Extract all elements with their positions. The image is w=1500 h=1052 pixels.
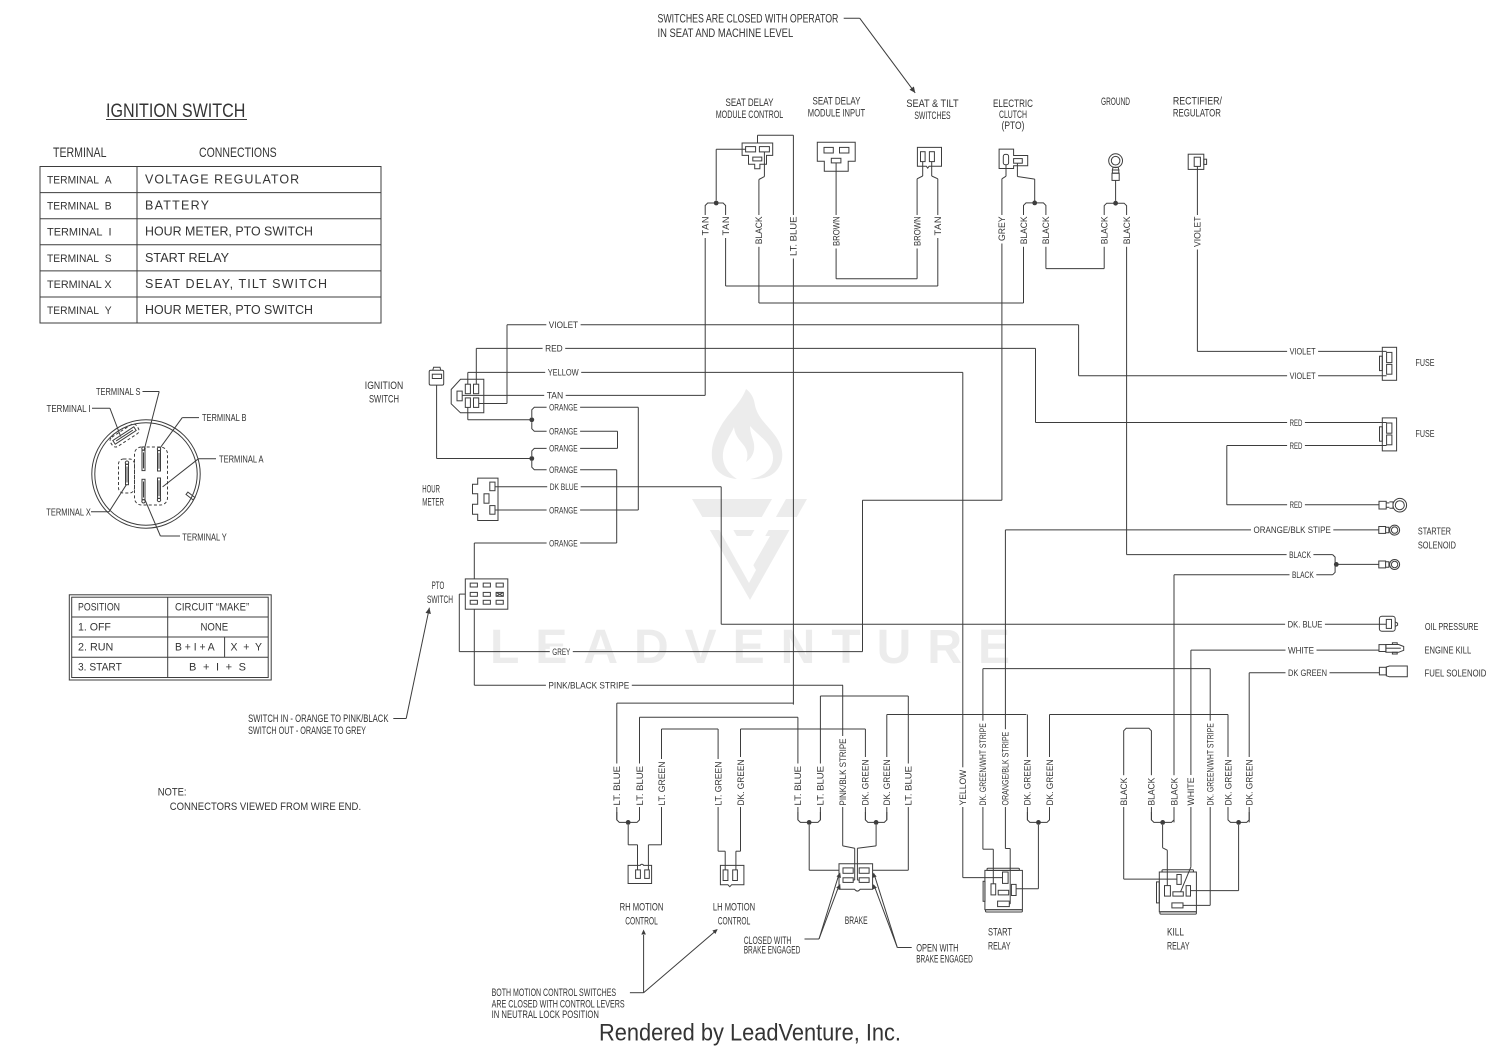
svg-text:TERMINAL S: TERMINAL S <box>96 387 141 398</box>
wire TAN seat&tilt right pin <box>931 162 933 176</box>
svg-text:LT. GREEN: LT. GREEN <box>713 762 723 806</box>
fuse 1 <box>1382 347 1396 380</box>
svg-text:WHITE: WHITE <box>1186 778 1196 806</box>
wire black junction to ring <box>1336 563 1379 565</box>
electric clutch connector <box>999 149 1028 168</box>
wire GREY pto <box>459 593 465 595</box>
svg-text:BOTH MOTION CONTROL SWITCHES: BOTH MOTION CONTROL SWITCHES <box>492 987 616 999</box>
svg-text:RELAY: RELAY <box>1167 940 1190 952</box>
wire DK.GREEN start relay b <box>1049 715 1051 820</box>
label DK. GREEN <box>1223 757 1233 807</box>
terminal pins S B X A Y <box>142 450 145 470</box>
svg-text:TERMINAL X: TERMINAL X <box>46 507 91 518</box>
label LT. BLUE <box>612 764 622 808</box>
svg-text:BLACK: BLACK <box>1100 216 1110 245</box>
svg-text:RH MOTION: RH MOTION <box>620 901 664 913</box>
label BLACK <box>1169 775 1179 807</box>
svg-text:X + Y: X + Y <box>231 642 263 654</box>
label BLACK <box>1019 215 1029 247</box>
engine kill connector <box>1379 645 1386 652</box>
wire DK.GREEN start relay a <box>1026 715 1028 820</box>
wire ground junction bracket <box>1115 180 1117 200</box>
svg-text:BLACK: BLACK <box>1289 550 1311 560</box>
key symbol <box>429 370 444 385</box>
terminal I slot <box>109 422 141 448</box>
row DK. BLUE to oil pressure <box>721 623 1386 625</box>
svg-text:CIRCUIT “MAKE”: CIRCUIT “MAKE” <box>175 602 249 614</box>
svg-text:TAN: TAN <box>547 391 564 401</box>
row LT.BLUE rh to brake <box>640 716 798 718</box>
svg-text:WHITE: WHITE <box>1288 645 1314 655</box>
svg-text:TERMINAL: TERMINAL <box>53 144 107 160</box>
row DK.GREEN lh to brake <box>741 728 866 730</box>
wire kill black junction in <box>1162 825 1164 848</box>
svg-text:IN NEUTRAL LOCK POSITION: IN NEUTRAL LOCK POSITION <box>492 1009 599 1021</box>
svg-text:LT. BLUE: LT. BLUE <box>904 766 914 806</box>
row DK.GREEN start to kill <box>1050 714 1229 716</box>
wire DK.GREEN kill a <box>1227 715 1229 820</box>
label DK. GREEN <box>882 757 892 807</box>
svg-text:MODULE CONTROL: MODULE CONTROL <box>716 109 784 121</box>
label DK. GREEN/WHT STRIPE <box>1205 721 1215 807</box>
svg-text:BLACK: BLACK <box>1119 777 1129 806</box>
svg-text:PINK/BLACK STRIPE: PINK/BLACK STRIPE <box>548 681 629 691</box>
row PINK/BLACK STRIPE <box>474 684 843 686</box>
svg-text:HOUR METER, PTO SWITCH: HOUR METER, PTO SWITCH <box>145 303 313 317</box>
svg-text:ORANGE/BLK STRIPE: ORANGE/BLK STRIPE <box>1001 732 1011 806</box>
row TAN <box>462 394 705 396</box>
svg-text:TAN: TAN <box>701 217 711 236</box>
svg-text:SWITCH: SWITCH <box>427 594 453 606</box>
svg-text:TERMINAL X: TERMINAL X <box>47 279 112 291</box>
row LT.BLUE rh pair <box>617 702 794 704</box>
wire VIOLET pin <box>479 403 507 405</box>
label ORANGE/BLK STRIPE <box>1001 729 1011 807</box>
svg-text:LT. BLUE: LT. BLUE <box>816 766 826 806</box>
svg-text:B + I + A: B + I + A <box>175 642 215 654</box>
index tab <box>186 492 195 500</box>
svg-text:SWITCH IN - ORANGE TO PINK/BLA: SWITCH IN - ORANGE TO PINK/BLACK <box>248 713 389 725</box>
svg-text:RELAY: RELAY <box>988 940 1011 952</box>
svg-text:BLACK: BLACK <box>1292 570 1314 580</box>
start relay connector <box>987 868 1019 870</box>
row ORANGE 3 <box>532 448 547 456</box>
svg-text:3. START: 3. START <box>78 662 122 674</box>
svg-text:VIOLET: VIOLET <box>549 320 579 330</box>
svg-text:IGNITION: IGNITION <box>365 380 403 392</box>
svg-text:POSITION: POSITION <box>78 602 120 614</box>
svg-text:RED: RED <box>1290 418 1303 428</box>
svg-text:GREY: GREY <box>552 647 570 657</box>
svg-text:BRAKE ENGAGED: BRAKE ENGAGED <box>744 945 801 957</box>
wire LT.GREEN rh <box>661 729 663 845</box>
label YELLOW <box>958 767 968 807</box>
svg-text:SWITCHES: SWITCHES <box>914 110 950 122</box>
wire DK.GREEN lh <box>740 729 742 851</box>
svg-text:HOUR: HOUR <box>422 484 440 496</box>
wire VIOLET from rectifier <box>1196 166 1198 351</box>
label BLACK <box>1099 215 1109 247</box>
svg-text:DK. GREEN: DK. GREEN <box>861 760 871 806</box>
svg-text:DK GREEN: DK GREEN <box>1288 668 1327 678</box>
wire DK.GREEN/WHT STRIPE into kill relay <box>1209 669 1211 906</box>
svg-text:BLACK: BLACK <box>1147 777 1157 806</box>
wire RED pin <box>475 348 477 384</box>
svg-text:IN SEAT AND MACHINE LEVEL: IN SEAT AND MACHINE LEVEL <box>658 28 794 40</box>
fuel solenoid connector <box>1379 667 1386 675</box>
wire BLACK kill top bracket <box>1124 728 1152 770</box>
svg-text:DK. GREEN: DK. GREEN <box>736 760 746 806</box>
wire BLACK down to kill relay <box>1173 575 1175 823</box>
wire rh junction to connector <box>627 825 629 845</box>
wire BLACK kill 2 <box>1150 770 1152 820</box>
wire TAN left branch <box>704 212 706 395</box>
row LT.GREEN rh to lh <box>662 728 719 730</box>
row ORANGE 1 <box>532 407 547 417</box>
svg-text:BATTERY: BATTERY <box>145 199 210 213</box>
label DK. GREEN <box>1045 757 1055 807</box>
pto switch connector <box>465 579 508 609</box>
label DK. GREEN/WHT STRIPE <box>978 721 988 807</box>
row DK GREEN to fuel solenoid <box>1248 673 1250 823</box>
svg-text:START RELAY: START RELAY <box>145 251 230 265</box>
watermark flame logo <box>692 389 807 600</box>
svg-text:ORANGE: ORANGE <box>549 444 578 454</box>
svg-text:ORANGE: ORANGE <box>549 403 578 413</box>
row GREY <box>459 651 862 653</box>
svg-text:DK. GREEN: DK. GREEN <box>1045 760 1055 806</box>
svg-text:START: START <box>988 926 1012 938</box>
key wire <box>436 385 438 458</box>
svg-text:DK BLUE: DK BLUE <box>550 482 579 492</box>
row BLACK lower <box>1174 574 1333 576</box>
row RED to fuse2 bottom <box>1227 445 1387 447</box>
label BLACK <box>1041 215 1051 247</box>
wire DK.GREEN brake a <box>864 729 866 820</box>
wire PINK/BLK STRIPE brake <box>842 685 844 846</box>
label DK. GREEN <box>736 757 746 807</box>
label LT. BLUE <box>635 764 645 808</box>
label LT. GREEN <box>713 759 723 807</box>
row WHITE to engine kill <box>1190 650 1192 867</box>
row BLACK upper <box>1127 554 1333 556</box>
svg-text:LT. GREEN: LT. GREEN <box>657 762 667 806</box>
position table frame <box>69 595 271 680</box>
svg-text:RECTIFIER/: RECTIFIER/ <box>1173 96 1223 108</box>
svg-text:LT. BLUE: LT. BLUE <box>612 766 622 806</box>
rectifier/regulator connector <box>1188 154 1204 169</box>
svg-text:FUSE: FUSE <box>1416 429 1435 440</box>
label DK. GREEN <box>1023 757 1033 807</box>
wire DK.GREEN kill b <box>1228 812 1249 822</box>
svg-text:RED: RED <box>545 344 563 354</box>
svg-text:NOTE:: NOTE: <box>158 787 187 799</box>
svg-text:CONNECTIONS: CONNECTIONS <box>199 144 277 160</box>
wire YELLOW pin <box>467 372 469 384</box>
wire BLACK clutch left branch <box>1023 212 1025 303</box>
wire DK.GREEN/WHT STRIPE to start relay <box>982 669 984 850</box>
label BROWN <box>831 215 841 249</box>
label LT. BLUE <box>816 764 826 808</box>
row ORANGE 5 <box>495 509 638 511</box>
ring terminal starter solenoid <box>1379 527 1386 534</box>
label LT. GREEN <box>657 759 667 807</box>
row DK BLUE <box>495 486 721 488</box>
svg-text:BLACK: BLACK <box>1019 216 1029 245</box>
leader to seat and tilt <box>844 17 860 19</box>
wire BROWN from module input <box>835 163 837 279</box>
svg-text:FUEL SOLENOID: FUEL SOLENOID <box>1425 669 1487 680</box>
row VIOLET to fuse1 top <box>1287 346 1318 356</box>
row ORANGE 4 <box>532 461 547 470</box>
wire YELLOW to start relay <box>962 372 964 877</box>
svg-text:ORANGE/BLK STIPE: ORANGE/BLK STIPE <box>1254 525 1331 535</box>
row YELLOW <box>468 371 963 373</box>
wire BLACK ground right branch <box>1126 212 1128 555</box>
row RED to ring terminal <box>1227 504 1379 506</box>
svg-text:DK. GREEN/WHT STRIPE: DK. GREEN/WHT STRIPE <box>1206 723 1216 805</box>
svg-text:TAN: TAN <box>933 217 943 236</box>
svg-text:BRAKE ENGAGED: BRAKE ENGAGED <box>916 953 973 965</box>
label GREY <box>997 215 1007 244</box>
svg-text:SWITCH OUT - ORANGE TO GREY: SWITCH OUT - ORANGE TO GREY <box>248 725 366 737</box>
svg-text:VIOLET: VIOLET <box>1193 216 1203 247</box>
svg-text:DK. GREEN: DK. GREEN <box>1223 760 1233 806</box>
label PINK/BLK STRIPE <box>838 736 848 807</box>
svg-text:TERMINAL A: TERMINAL A <box>47 175 112 187</box>
wire LT.BLUE rh right <box>639 717 641 820</box>
wire start relay dk green in <box>1037 825 1039 889</box>
svg-text:TERMINAL A: TERMINAL A <box>219 454 264 465</box>
wire kill dk green in <box>1238 825 1240 891</box>
svg-text:REGULATOR: REGULATOR <box>1173 108 1221 120</box>
svg-text:LT. BLUE: LT. BLUE <box>789 217 799 257</box>
wire LT.GREEN lh <box>717 729 719 851</box>
row DK.GREEN/WHT STRIPE start to kill <box>983 668 1210 670</box>
wire ORANGE/BLK STRIPE into start relay <box>1005 848 1010 850</box>
rh motion control connector <box>628 864 652 883</box>
wire PINK/BLACK pto <box>473 609 475 685</box>
svg-text:TERMINAL Y: TERMINAL Y <box>182 532 227 543</box>
label DK. GREEN <box>1244 757 1254 807</box>
wire DK.GREEN brake b <box>886 715 888 820</box>
svg-text:RED: RED <box>1290 500 1303 510</box>
label BLACK <box>1147 775 1157 807</box>
label LT. BLUE <box>904 764 914 808</box>
svg-text:CONTROL: CONTROL <box>718 915 751 927</box>
wire BLACK ground left branch <box>1103 212 1105 269</box>
svg-text:TERMINAL B: TERMINAL B <box>47 201 112 213</box>
svg-text:CONTROL: CONTROL <box>625 915 658 927</box>
label TAN <box>721 215 731 238</box>
brake switch connector <box>839 864 873 891</box>
svg-text:ENGINE KILL: ENGINE KILL <box>1425 646 1472 657</box>
svg-text:GROUND: GROUND <box>1101 96 1130 108</box>
svg-text:LT. BLUE: LT. BLUE <box>635 766 645 806</box>
wire LT.BLUE brake b <box>819 696 821 820</box>
svg-text:TERMINAL I: TERMINAL I <box>47 404 91 415</box>
wire LT.BLUE brake right <box>907 696 909 870</box>
svg-text:BROWN: BROWN <box>831 217 841 247</box>
row ORANGE 6 <box>474 542 616 544</box>
svg-text:LT. BLUE: LT. BLUE <box>793 766 803 806</box>
svg-text:DK. BLUE: DK. BLUE <box>1288 620 1323 630</box>
svg-text:TERMINAL I: TERMINAL I <box>47 227 112 239</box>
wire ORANGE bottom-left pin <box>467 407 469 419</box>
svg-text:ORANGE: ORANGE <box>549 465 578 475</box>
wire LT. BLUE from module control <box>757 135 759 143</box>
svg-text:STARTER: STARTER <box>1418 527 1451 538</box>
row DK.GREEN brake to start relay <box>887 714 1027 716</box>
svg-text:SEAT & TILT: SEAT & TILT <box>906 98 959 110</box>
svg-text:ORANGE: ORANGE <box>549 538 578 548</box>
svg-text:BLACK: BLACK <box>1041 216 1051 245</box>
ring terminal black <box>1379 561 1386 568</box>
svg-text:SWITCHES ARE CLOSED WITH OPERA: SWITCHES ARE CLOSED WITH OPERATOR <box>658 14 839 26</box>
wire BLACK clutch bracket <box>1016 163 1018 176</box>
svg-text:VIOLET: VIOLET <box>1290 347 1316 357</box>
label LT. BLUE <box>789 215 799 259</box>
wire BLACK kill 3 <box>1173 770 1175 820</box>
hour meter connector <box>473 478 499 520</box>
svg-text:BLACK: BLACK <box>1122 216 1132 245</box>
svg-text:METER: METER <box>422 497 444 509</box>
label TAN <box>933 215 943 238</box>
svg-text:MODULE INPUT: MODULE INPUT <box>808 108 866 120</box>
label LT. BLUE <box>793 764 803 808</box>
svg-text:VIOLET: VIOLET <box>1290 371 1316 381</box>
label DK. GREEN <box>861 757 871 807</box>
seat delay module control connector <box>742 143 773 169</box>
svg-text:DK. GREEN/WHT STRIPE: DK. GREEN/WHT STRIPE <box>978 723 988 805</box>
fuse 2 <box>1382 418 1396 451</box>
svg-text:VOLTAGE REGULATOR: VOLTAGE REGULATOR <box>145 173 299 187</box>
row ORANGE 2 <box>532 422 547 431</box>
svg-text:RED: RED <box>1290 441 1303 451</box>
svg-text:DK. GREEN: DK. GREEN <box>882 760 892 806</box>
svg-text:PTO: PTO <box>432 580 445 592</box>
svg-text:HOUR METER, PTO SWITCH: HOUR METER, PTO SWITCH <box>145 225 313 239</box>
svg-text:GREY: GREY <box>997 217 1007 242</box>
svg-text:Rendered by LeadVenture, Inc.: Rendered by LeadVenture, Inc. <box>599 1020 901 1047</box>
svg-text:DK. GREEN: DK. GREEN <box>1023 760 1033 806</box>
seat & tilt switches connector <box>917 147 941 168</box>
svg-text:TERMINAL B: TERMINAL B <box>202 413 247 424</box>
svg-text:YELLOW: YELLOW <box>548 368 579 378</box>
svg-text:FUSE: FUSE <box>1416 358 1435 369</box>
label WHITE <box>1186 775 1196 807</box>
row RED <box>476 347 1035 349</box>
row LT.BLUE brake pair <box>820 695 908 697</box>
label VIOLET <box>1193 215 1203 250</box>
wire TAN right branch to seat&tilt <box>725 212 727 286</box>
svg-text:BROWN: BROWN <box>912 217 922 247</box>
svg-text:BLACK: BLACK <box>1169 777 1179 806</box>
svg-text:SOLENOID: SOLENOID <box>1418 541 1456 552</box>
svg-text:KILL: KILL <box>1167 926 1184 938</box>
svg-text:IGNITION SWITCH: IGNITION SWITCH <box>106 101 245 122</box>
wire LT.BLUE brake a <box>797 717 799 820</box>
svg-text:TAN: TAN <box>721 217 731 236</box>
svg-text:OIL PRESSURE: OIL PRESSURE <box>1425 622 1479 633</box>
ground ring terminal <box>1109 154 1123 168</box>
wire LT.BLUE rh left <box>616 703 618 820</box>
wire BLACK from module control <box>763 152 765 177</box>
wire GREY from electric clutch <box>1005 165 1007 177</box>
svg-text:ORANGE: ORANGE <box>549 427 578 437</box>
svg-text:SWITCH: SWITCH <box>369 394 399 406</box>
svg-text:2. RUN: 2. RUN <box>78 642 113 654</box>
wire BLACK kill 1 <box>1123 770 1125 879</box>
svg-text:LH MOTION: LH MOTION <box>713 901 755 913</box>
label BLACK <box>1119 775 1129 807</box>
svg-text:TERMINAL S: TERMINAL S <box>47 253 112 265</box>
wire BROWN seat&tilt left pin <box>922 162 924 176</box>
label TAN <box>700 215 710 238</box>
svg-text:CONNECTORS VIEWED FROM WIRE EN: CONNECTORS VIEWED FROM WIRE END. <box>170 801 361 813</box>
wire TAN bracket from module control <box>716 148 745 150</box>
wire BLACK clutch right branch <box>1045 212 1047 269</box>
svg-text:DK. GREEN: DK. GREEN <box>1245 760 1255 806</box>
svg-text:ORANGE: ORANGE <box>549 505 578 515</box>
svg-text:BLACK: BLACK <box>754 216 764 245</box>
svg-text:SEAT DELAY, TILT SWITCH: SEAT DELAY, TILT SWITCH <box>145 277 327 291</box>
connections table frame <box>40 167 381 324</box>
row VIOLET <box>507 324 1079 326</box>
label BLACK <box>1122 215 1132 247</box>
dashed outline around pins <box>135 447 168 505</box>
svg-text:B + I + S: B + I + S <box>189 662 246 674</box>
wire brake left junction in <box>808 825 810 870</box>
svg-text:YELLOW: YELLOW <box>958 769 968 805</box>
ignition switch face view circles <box>92 420 200 528</box>
svg-text:(PTO): (PTO) <box>1002 120 1025 132</box>
row RED to fuse2 top <box>1035 348 1037 422</box>
kill relay connector <box>1162 870 1194 872</box>
label BROWN <box>912 215 922 249</box>
svg-text:TERMINAL Y: TERMINAL Y <box>47 305 112 317</box>
svg-text:1. OFF: 1. OFF <box>78 621 111 633</box>
row ORANGE/BLK STIPE to starter solenoid <box>1004 530 1006 849</box>
ignition connector <box>451 379 484 413</box>
row VIOLET to fuse1 bottom <box>1078 325 1080 376</box>
oil pressure connector <box>1379 616 1395 631</box>
svg-text:NONE: NONE <box>201 621 229 633</box>
ring terminal red <box>1379 501 1386 509</box>
seat delay module input connector <box>817 142 855 171</box>
svg-text:BRAKE: BRAKE <box>845 915 868 927</box>
svg-text:SEAT DELAY: SEAT DELAY <box>813 96 861 108</box>
label BLACK <box>754 215 764 247</box>
lh motion control connector <box>720 865 744 886</box>
wire brake right junction in <box>875 825 877 846</box>
wire WHITE into kill relay <box>1181 867 1191 892</box>
svg-text:SEAT DELAY: SEAT DELAY <box>726 97 774 109</box>
svg-text:PINK/BLK STRIPE: PINK/BLK STRIPE <box>838 739 848 806</box>
